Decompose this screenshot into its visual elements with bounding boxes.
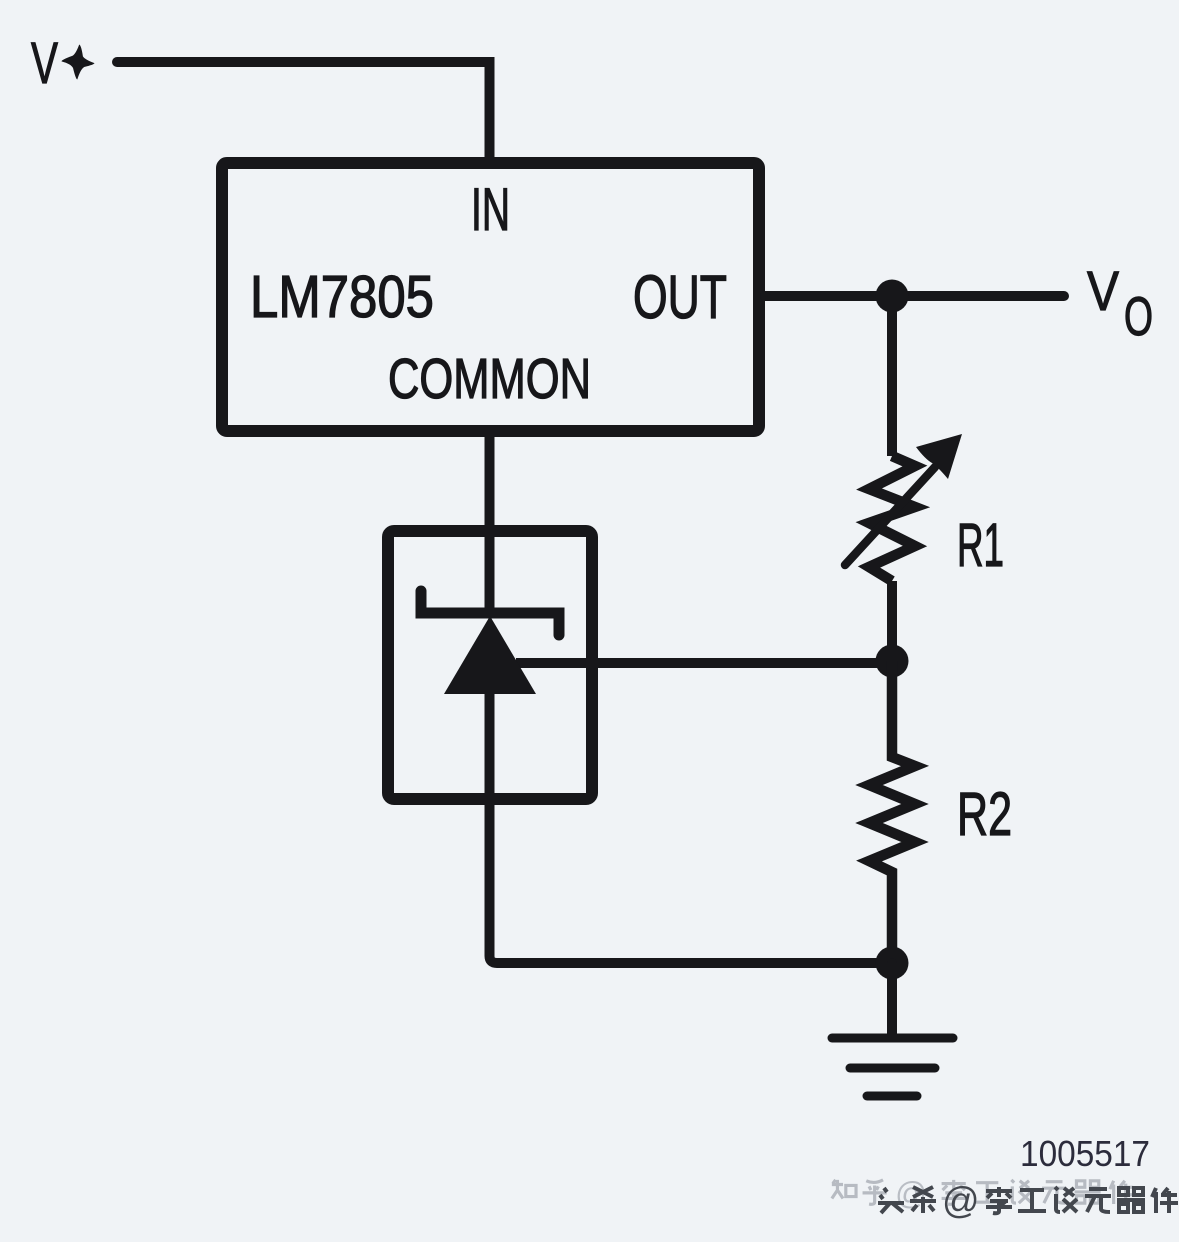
zener diode D1 box (388, 531, 592, 799)
watermark light layer 知乎 @李工谈元器件 (832, 1175, 1134, 1211)
wire OUT to VO (765, 291, 1064, 301)
svg-text:@: @ (942, 1180, 980, 1221)
wire zener anode down and right to junction (490, 690, 893, 963)
svg-text:LM7805: LM7805 (250, 264, 434, 330)
svg-text:V: V (31, 31, 58, 96)
svg-text:1005517: 1005517 (1020, 1133, 1150, 1174)
svg-text:O: O (1124, 285, 1153, 347)
wire zener tap to junction (516, 658, 892, 668)
wire OUT junction down to R1 (887, 296, 897, 456)
zener cathode bar (421, 591, 559, 635)
wire R1 to junction (887, 581, 897, 661)
node junction OUT (876, 280, 909, 313)
svg-text:R2: R2 (957, 780, 1012, 848)
node junction GND (876, 947, 909, 980)
svg-text:IN: IN (471, 176, 510, 243)
node junction R1/R2 (876, 645, 909, 678)
wire COMMON to zener (485, 437, 495, 613)
wire V+ to IN (117, 62, 490, 157)
svg-text:R1: R1 (957, 511, 1004, 579)
node VO label (1087, 259, 1153, 347)
ground (832, 963, 953, 1096)
resistor R1 (variable) (845, 434, 962, 581)
zener triangle (444, 616, 536, 694)
svg-text:COMMON: COMMON (388, 347, 591, 411)
node V+ (31, 31, 96, 96)
svg-text:OUT: OUT (633, 263, 727, 331)
regulator U1 LM7805 box (222, 163, 759, 431)
resistor R2 (869, 661, 915, 963)
watermark dark layer 头条 @李工谈元器件 (878, 1180, 1178, 1221)
svg-text:V: V (1087, 259, 1120, 322)
